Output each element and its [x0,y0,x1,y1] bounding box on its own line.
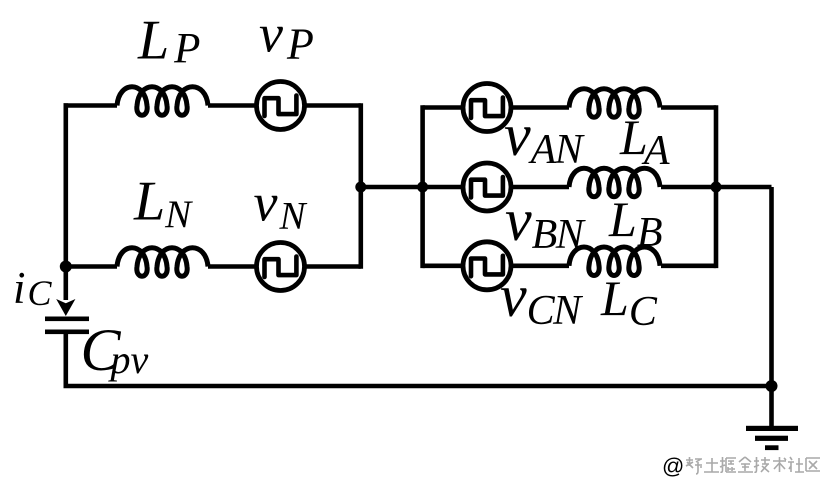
svg-text:@: @ [662,454,684,479]
